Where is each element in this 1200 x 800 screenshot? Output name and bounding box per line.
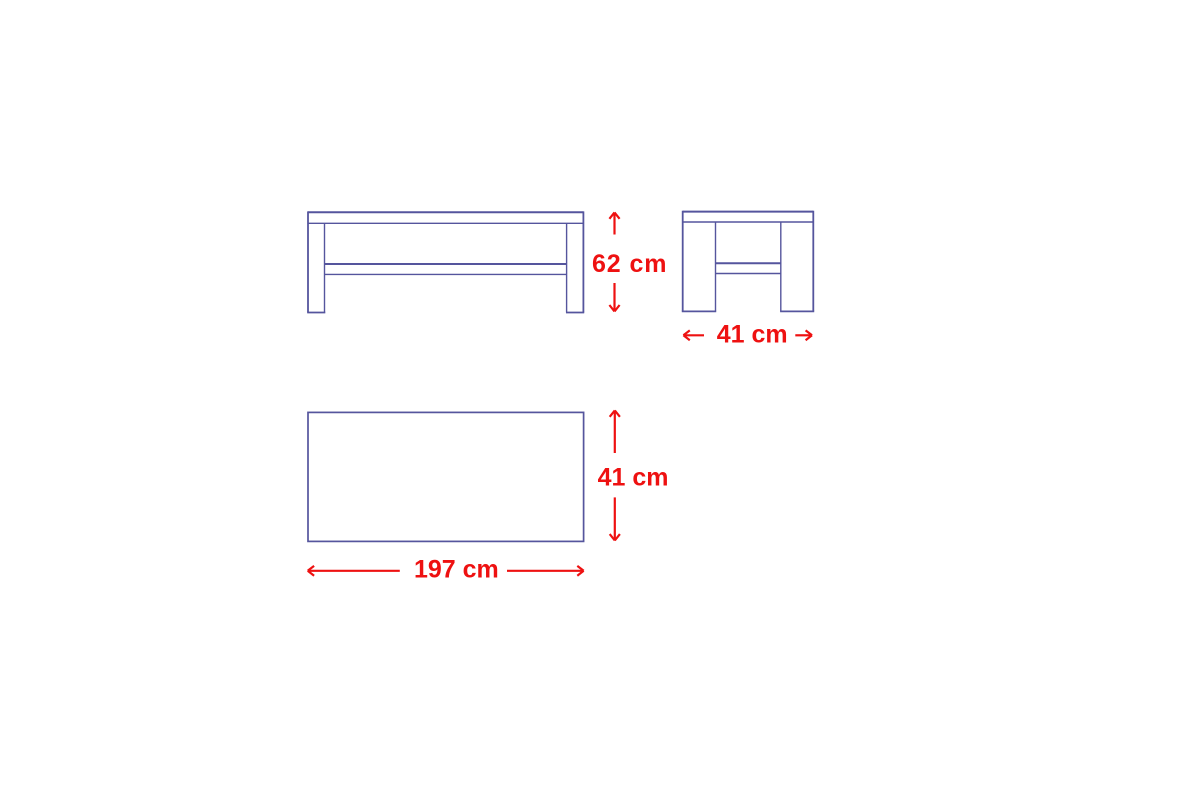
svg-text:41 cm: 41 cm — [598, 464, 669, 492]
side view: left leg — [682, 211, 716, 312]
front view: lower shelf — [325, 264, 567, 274]
dimension arrow: front height down arrow — [609, 283, 619, 311]
side view: right leg — [780, 211, 814, 312]
front view: table top board — [308, 212, 584, 223]
front view: left leg — [307, 211, 325, 312]
dimension arrow: length left arrow — [308, 566, 400, 576]
side view: lower shelf — [716, 263, 781, 273]
dimension arrow: top view depth up arrow — [610, 410, 620, 453]
svg-text:62 cm: 62 cm — [592, 250, 667, 278]
dimension arrow: top view depth down arrow — [610, 497, 620, 540]
front view: right leg — [566, 211, 584, 312]
dimension arrow: length right arrow — [507, 566, 584, 576]
dimension arrow: side width right arrow — [795, 330, 812, 340]
dimension arrow: side width left arrow — [683, 330, 704, 340]
side view: table top board — [683, 212, 814, 222]
top view: table top outline — [308, 412, 584, 541]
dimension arrow: front height up arrow — [609, 212, 619, 234]
svg-text:197 cm: 197 cm — [414, 555, 499, 583]
svg-text:41 cm: 41 cm — [717, 320, 788, 348]
